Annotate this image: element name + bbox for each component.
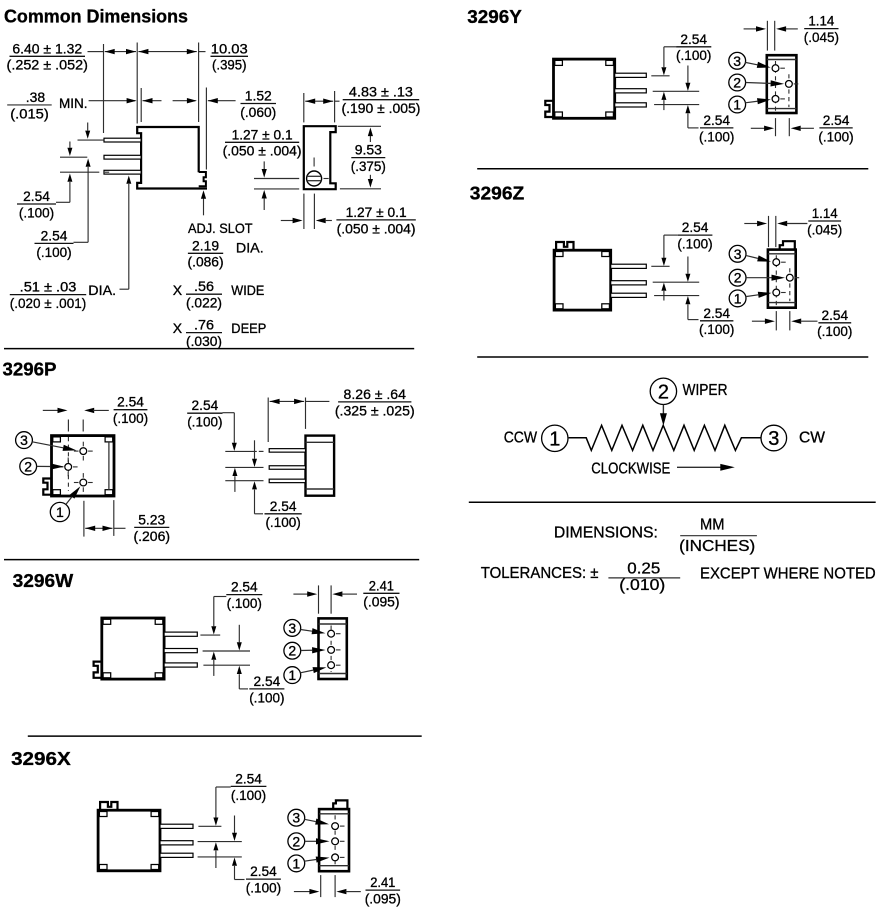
title: 3296P [3, 358, 57, 379]
dim label 4.83 [341, 84, 420, 116]
resistor element (zigzag) [569, 425, 761, 450]
svg-text:DIMENSIONS:: DIMENSIONS: [554, 525, 658, 542]
adjustment screw slot [307, 171, 322, 186]
3296Z pin ext line 3 [654, 295, 699, 297]
3296Y dim 2.54 bottom arrows [751, 126, 814, 131]
3296Y pin ext line 1 [651, 75, 669, 77]
3296X front view [319, 800, 349, 871]
svg-text:3: 3 [288, 620, 296, 636]
wiper arrow [660, 405, 667, 426]
svg-text:(.020 ± .001): (.020 ± .001) [10, 295, 86, 311]
3296Y pin 3 [615, 103, 647, 107]
3296Y body top view [545, 59, 614, 118]
title: 3296W [13, 570, 74, 591]
svg-text:2.54: 2.54 [821, 307, 848, 323]
3296W dim label 2.41 [363, 577, 399, 609]
svg-text:(.100): (.100) [699, 321, 734, 337]
3296P top view body [43, 436, 114, 496]
3296Z dim label 1.14 [807, 205, 842, 237]
clockwise arrow [677, 464, 735, 471]
3296Z circled 1 [729, 290, 746, 307]
ext line body left x=137.2 [136, 43, 138, 124]
3296X ext lines 2.41 [321, 875, 335, 897]
svg-text:2: 2 [734, 270, 742, 286]
3296Z dim label 2.54 lower-left [699, 305, 734, 337]
3296W pin ext line 1 [200, 634, 220, 636]
ext line slot x=206.4 [205, 88, 207, 170]
3296Y dim label 2.54 upper [676, 31, 711, 63]
3296P dim 8.26 arrows [270, 399, 330, 404]
dim label X .76 DEEP [173, 317, 267, 349]
svg-text:2.54: 2.54 [682, 219, 709, 235]
svg-text:(.100): (.100) [227, 595, 262, 611]
leader ADJ. SLOT [201, 190, 206, 215]
svg-text:1.14: 1.14 [808, 13, 834, 29]
svg-text:2: 2 [658, 382, 669, 404]
3296W dim 2.41 arrows [293, 591, 357, 596]
3296X dim lower arrows [232, 816, 245, 880]
3296W pin 1 [164, 632, 197, 636]
svg-text:.56: .56 [194, 278, 214, 294]
svg-text:1: 1 [549, 429, 560, 451]
3296P side pin 1 [269, 449, 305, 453]
svg-text:3: 3 [292, 810, 300, 826]
schematic circled 2 (wiper terminal) [650, 378, 676, 404]
3296X pin ext line 1 [198, 825, 221, 827]
3296Y dim lower arrows [685, 66, 698, 128]
separator line 3 [28, 735, 422, 737]
3296Z pin 2 [611, 281, 647, 285]
text CCW [504, 430, 538, 447]
svg-text:(.100): (.100) [677, 236, 712, 252]
svg-text:9.53: 9.53 [355, 142, 382, 158]
dim label X .56 WIDE [173, 278, 265, 310]
3296P dim label 2.54 (upper) [187, 397, 222, 429]
3296Z ext lines 2.54 bottom [776, 311, 790, 330]
svg-text:3296P: 3296P [3, 358, 57, 379]
svg-text:Common Dimensions: Common Dimensions [4, 5, 188, 26]
dim label 6.40 +/- 1.32 [7, 40, 88, 72]
separator line 1 [4, 348, 414, 350]
3296P side pin 2 [269, 466, 305, 470]
trimmer body side view (common dims) [137, 127, 207, 189]
ext lines 4.83 [304, 91, 335, 122]
svg-text:1.27 ± 0.1: 1.27 ± 0.1 [232, 126, 293, 142]
3296Y pin ext line 2 [653, 90, 700, 92]
svg-text:2: 2 [24, 458, 32, 474]
dim label 1.52 [240, 88, 276, 120]
3296X dim label 2.54 lower [246, 863, 281, 895]
svg-text:(.030): (.030) [186, 333, 222, 349]
tolerance fraction 0.25/(.010) [608, 560, 680, 594]
3296Y dim label 2.54 lower-left [699, 112, 734, 144]
dim label 2.54 (pin1-pin2) [35, 227, 74, 259]
3296Z leader 2 [746, 275, 785, 281]
3296W leader 1 [300, 667, 326, 673]
svg-text:2.54: 2.54 [680, 31, 707, 47]
svg-text:3: 3 [20, 432, 28, 448]
svg-text:2.54: 2.54 [192, 397, 219, 413]
3296X dim label 2.54 upper [231, 770, 267, 802]
svg-text:1.52: 1.52 [245, 88, 272, 104]
title: Common Dimensions [4, 5, 188, 26]
svg-text:(.395): (.395) [212, 57, 247, 73]
3296Y dim label 2.54 bottom [818, 112, 853, 144]
separator line 2 [4, 559, 419, 561]
3296Z leader 3 [746, 255, 771, 261]
svg-text:DIA.: DIA. [88, 282, 116, 298]
title: 3296X [11, 748, 71, 769]
3296W pin 3 [164, 663, 197, 667]
svg-text:2: 2 [288, 643, 296, 659]
3296Y circled 1 [729, 96, 746, 113]
3296Z circled 3 [729, 245, 746, 262]
svg-text:(.206): (.206) [134, 528, 171, 544]
svg-text:MM: MM [700, 516, 725, 533]
dim 1.27 bottom arrows [281, 218, 332, 223]
svg-text:(.086): (.086) [188, 254, 224, 270]
3296W circled 3 [284, 620, 301, 637]
3296Y dim 1.14 arrows [744, 26, 798, 31]
svg-text:(.100): (.100) [265, 514, 300, 530]
svg-text:CW: CW [799, 430, 826, 447]
3296Y ext lines 2.54 bottom [776, 118, 790, 136]
svg-text:3296X: 3296X [11, 748, 71, 769]
title: 3296Z [470, 183, 525, 204]
trimmer body end view (common dims) [304, 126, 336, 189]
3296P centerline pin2 col [67, 420, 69, 492]
3296Y circled 3 [729, 52, 746, 69]
3296Y ext lines 1.14 [767, 21, 774, 51]
3296Z pin ext line 2 [653, 281, 700, 283]
svg-text:MIN.: MIN. [59, 95, 88, 111]
3296P dim lower arrows [252, 440, 263, 514]
svg-text:2.54: 2.54 [250, 863, 277, 879]
svg-text:8.26 ± .64: 8.26 ± .64 [344, 386, 407, 402]
svg-text:(.050 ± .004): (.050 ± .004) [223, 143, 302, 159]
schematic circled 1 (CCW terminal) [542, 425, 568, 451]
svg-text:(.100): (.100) [699, 128, 734, 144]
svg-text:(.100): (.100) [113, 410, 148, 426]
dim arrows 4.83 [305, 99, 339, 104]
svg-text:(.060): (.060) [240, 104, 276, 120]
3296P ext lines 8.26 [268, 398, 305, 443]
dim line 1.52 right [208, 98, 236, 103]
svg-text:(.100): (.100) [187, 414, 222, 430]
svg-text:2.54: 2.54 [117, 394, 144, 410]
3296X pin 2 [160, 841, 193, 845]
ext line pin2 center [60, 156, 87, 158]
svg-text:10.03: 10.03 [211, 40, 248, 56]
text CLOCKWISE [591, 460, 670, 477]
3296Y dim upper arrows [661, 47, 676, 110]
3296W dim upper arrows [211, 597, 226, 676]
svg-text:2.54: 2.54 [235, 770, 262, 786]
dim line 6.40 leader [88, 51, 104, 53]
svg-text:2.54: 2.54 [41, 227, 68, 243]
3296P circled 2 [20, 458, 37, 475]
dim 2.54 pin1-pin2 arrows [74, 123, 91, 243]
3296Z pin 3 [611, 293, 647, 297]
ext line pin1 center [78, 139, 104, 141]
separator line 5 [477, 356, 868, 358]
3296Z dim upper arrows [661, 235, 677, 300]
text EXCEPT WHERE NOTED [700, 566, 876, 583]
pin 1 (side view) [104, 138, 141, 142]
3296Z dim 1.14 arrows [744, 221, 807, 226]
text CW [799, 430, 826, 447]
svg-text:1: 1 [734, 290, 742, 306]
svg-text:1.27 ± 0.1: 1.27 ± 0.1 [346, 204, 407, 220]
3296W dim label 2.54 upper [226, 579, 262, 611]
3296P pin 3 [74, 442, 93, 461]
3296X leader 2 [305, 838, 330, 844]
3296W pin ext line 2 [203, 650, 250, 652]
3296Z circled 2 [729, 269, 746, 286]
3296P inner line right [108, 442, 110, 490]
3296P dim label 5.23 [134, 511, 171, 543]
3296X body top view [98, 802, 160, 871]
3296P centerline pin13 col [82, 420, 84, 432]
dim units fraction MM/(INCHES) [679, 516, 757, 555]
3296W body top view [94, 618, 165, 679]
svg-text:(.100): (.100) [676, 47, 711, 63]
svg-text:(.022): (.022) [186, 295, 222, 311]
svg-text:(.095): (.095) [363, 594, 399, 610]
3296P leader 2 [37, 463, 64, 469]
svg-text:3: 3 [734, 246, 742, 262]
schematic circled 3 (CW terminal) [761, 425, 787, 451]
svg-text:CCW: CCW [504, 430, 538, 447]
title: 3296Y [467, 6, 522, 27]
svg-text:DIA.: DIA. [236, 240, 264, 256]
3296P pin ext line 1 [225, 450, 263, 452]
svg-text:3296W: 3296W [13, 570, 74, 591]
svg-text:4.83 ± .13: 4.83 ± .13 [349, 84, 413, 100]
svg-text:2.54: 2.54 [703, 112, 730, 128]
3296Y pin ext line 3 [654, 104, 699, 106]
3296Y leader 2 [746, 80, 785, 86]
3296W dim lower arrows [237, 625, 248, 689]
3296P dim label 2.54 top [113, 394, 148, 426]
3296X pin ext line 3 [198, 856, 242, 858]
pin 2 (side view) [104, 155, 141, 159]
svg-text:(.325 ± .025): (.325 ± .025) [335, 402, 415, 418]
text DIMENSIONS: [554, 525, 658, 542]
3296Z dim lower arrows [685, 257, 698, 320]
3296X pin 3 [160, 853, 193, 857]
3296Z body top view [554, 242, 611, 310]
ext line pin tip x=103.5 [103, 44, 105, 133]
svg-text:ADJ. SLOT: ADJ. SLOT [188, 220, 253, 236]
svg-text:(.100): (.100) [817, 323, 852, 339]
svg-text:(.045): (.045) [804, 29, 839, 45]
3296Y pin 2 [615, 89, 647, 93]
3296P dim 5.23 arrows [85, 526, 125, 531]
svg-text:(.375): (.375) [351, 158, 386, 174]
3296P leader 3 [32, 442, 76, 451]
3296X circled 3 [288, 809, 305, 826]
svg-text:EXCEPT WHERE NOTED: EXCEPT WHERE NOTED [700, 566, 876, 583]
ext lines 1.27 bottom [304, 194, 315, 229]
dim line 1.52 left [173, 98, 197, 103]
ext line x=141.2 [140, 88, 142, 122]
svg-text:6.40 ± 1.32: 6.40 ± 1.32 [12, 40, 82, 56]
svg-text:(INCHES): (INCHES) [679, 538, 755, 555]
svg-text:(.100): (.100) [19, 204, 54, 220]
svg-text:(.050 ± .004): (.050 ± .004) [337, 220, 416, 236]
svg-text:2.54: 2.54 [823, 112, 850, 128]
dim line .38 left [89, 98, 137, 103]
svg-text:.51 ± .03: .51 ± .03 [20, 279, 77, 295]
3296X leader 3 [304, 819, 329, 825]
3296Y leader 3 [745, 62, 770, 68]
dim arrows 9.53 [368, 128, 373, 188]
svg-text:2.54: 2.54 [270, 498, 297, 514]
dim line .38 right [143, 98, 162, 103]
svg-text:2.19: 2.19 [192, 237, 219, 253]
svg-text:1: 1 [292, 855, 300, 871]
dim label 2.54 (pin2-pin3) [17, 188, 56, 220]
3296W pin ext line 3 [203, 664, 250, 666]
svg-text:WIPER: WIPER [683, 382, 728, 399]
3296P dim 2.54 top arrows [43, 408, 109, 413]
svg-text:WIDE: WIDE [231, 282, 264, 298]
svg-text:(.010): (.010) [619, 577, 665, 594]
3296P side view body [306, 436, 335, 496]
3296Z leader 1 [746, 292, 772, 298]
3296X pin 1 [160, 824, 193, 828]
svg-text:5.23: 5.23 [138, 511, 165, 527]
dim 2.54 pin2-pin3 arrows [56, 142, 72, 203]
3296X dim label 2.41 [365, 874, 401, 906]
3296Z dim label 2.54 bottom [817, 307, 852, 339]
dim arrows 6.40 [105, 49, 136, 54]
3296P ext lines 5.23 [84, 500, 114, 536]
svg-text:(.190 ± .005): (.190 ± .005) [341, 100, 420, 116]
3296W circled 2 [284, 642, 301, 659]
svg-text:3296Z: 3296Z [470, 183, 525, 204]
dim label .38 MIN [7, 89, 87, 121]
3296Z front view [768, 241, 799, 308]
svg-text:2.54: 2.54 [254, 673, 281, 689]
svg-text:(.100): (.100) [36, 244, 71, 260]
svg-text:2: 2 [292, 833, 300, 849]
dim label 1.27 left [223, 126, 302, 158]
svg-text:X: X [173, 320, 183, 336]
svg-text:(.100): (.100) [246, 880, 281, 896]
svg-text:2.41: 2.41 [369, 577, 394, 593]
3296X circled 1 [288, 855, 305, 872]
ext line body right x=198.6 [198, 43, 200, 123]
3296P circled 3 [16, 432, 33, 449]
3296Z dim label 2.54 upper [677, 219, 712, 251]
3296W pin 2 [164, 649, 197, 653]
svg-text:(.252 ± .052): (.252 ± .052) [7, 57, 88, 73]
3296X dim upper arrows [213, 787, 230, 868]
3296Y front view [767, 55, 799, 113]
3296W dim label 2.54 lower [249, 673, 284, 705]
3296P dim label 2.54 (lower) [265, 498, 302, 530]
leader .51 DIA [120, 176, 132, 290]
3296W leader 3 [301, 628, 326, 634]
3296X circled 2 [288, 833, 305, 850]
svg-text:(.015): (.015) [10, 105, 49, 121]
ext line pin3 center [60, 171, 109, 173]
dim label 2.19 DIA [188, 237, 264, 269]
3296Z dim 2.54 bottom arrows [752, 319, 818, 324]
svg-text:(.095): (.095) [365, 891, 401, 907]
3296W front view [319, 618, 347, 679]
dim arrows 10.03 [138, 49, 205, 54]
3296P pin 1 [74, 473, 93, 492]
svg-text:2.41: 2.41 [370, 874, 395, 890]
3296P dim label 8.26 [335, 386, 415, 418]
3296W leader 2 [301, 647, 326, 653]
svg-text:1: 1 [288, 667, 296, 683]
3296Z pin 1 [611, 264, 647, 268]
3296Z pin ext line 1 [651, 265, 669, 267]
3296P circled 1 [50, 502, 69, 521]
svg-text:(.100): (.100) [231, 787, 266, 803]
3296P pin 2 [59, 458, 78, 477]
svg-text:1: 1 [733, 97, 741, 113]
separator line 6 [469, 501, 876, 503]
3296P leader 1 [66, 486, 81, 504]
3296Y pin 1 [615, 73, 647, 77]
dim label 10.03 [211, 40, 249, 72]
3296P pin ext line 2 [225, 466, 263, 468]
3296W ext lines 2.41 [319, 585, 332, 613]
dim label .51 DIA [10, 279, 116, 311]
svg-text:1: 1 [56, 504, 64, 520]
svg-text:.38: .38 [26, 89, 46, 105]
ext lines 9.53 [338, 126, 381, 189]
text TOLERANCES: [481, 565, 599, 582]
svg-text:(.100): (.100) [249, 689, 284, 705]
screw center marks [314, 158, 329, 179]
svg-text:2.54: 2.54 [23, 188, 50, 204]
3296W circled 1 [284, 667, 301, 684]
svg-text:2.54: 2.54 [231, 579, 258, 595]
pin 3 (side view) [104, 170, 141, 174]
svg-text:(.100): (.100) [818, 128, 853, 144]
3296Y circled 2 [729, 74, 746, 91]
3296Z ext lines 1.14 [769, 216, 776, 247]
text WIPER [683, 382, 728, 399]
svg-text:1.14: 1.14 [812, 205, 838, 221]
svg-text:TOLERANCES: ±: TOLERANCES: ± [481, 565, 599, 582]
svg-text:3: 3 [768, 428, 779, 450]
svg-text:0.25: 0.25 [627, 560, 660, 577]
3296P pin ext line 3 [225, 480, 263, 482]
svg-text:DEEP: DEEP [231, 320, 266, 336]
3296Y leader 1 [745, 98, 771, 104]
3296P dim upper arrows [223, 413, 238, 492]
svg-text:(.045): (.045) [807, 221, 842, 237]
dim 1.27 left arrows [254, 161, 299, 210]
3296Y dim label 1.14 [804, 13, 839, 45]
3296X dim 2.41 arrows [294, 889, 361, 894]
svg-text:3296Y: 3296Y [467, 6, 522, 27]
svg-text:.76: .76 [194, 317, 214, 333]
text ADJ. SLOT [188, 220, 253, 236]
3296P side pin 3 [269, 479, 305, 483]
3296X leader 1 [304, 856, 329, 862]
svg-text:2: 2 [733, 75, 741, 91]
dim label 1.27 bottom [336, 204, 415, 236]
3296X pin ext line 2 [198, 841, 242, 843]
